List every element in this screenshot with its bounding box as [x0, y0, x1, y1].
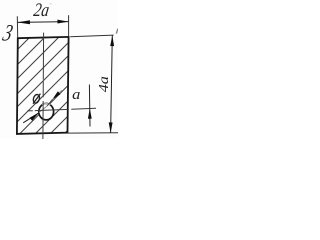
extension line left (2a): [16, 16, 18, 38]
arrow 2a right: [57, 20, 68, 24]
dimension line 4a: [111, 36, 113, 134]
arrow 4a bottom: [109, 122, 113, 133]
arrow 4a top: [110, 36, 114, 47]
extension line bottom (4a): [68, 132, 119, 134]
faint top arc of hole (scan fade): [42, 104, 50, 105]
leader line lower segment: [23, 113, 39, 123]
dimension line a: [88, 85, 91, 127]
arrow a: [88, 108, 92, 118]
vertical center line: [42, 33, 45, 139]
leader arrow upper: [52, 91, 60, 99]
dimension line 2a: [17, 21, 68, 24]
horizontal center line: [27, 108, 96, 111]
extension line right (2a): [68, 15, 70, 36]
scan speck: [50, 3, 52, 4]
leader arrow lower: [30, 113, 39, 121]
leader line faint middle segment: [39, 106, 47, 113]
plate outline: [17, 37, 69, 134]
hole circle: [39, 104, 54, 120]
hatching of plate section: [0, 28, 170, 135]
svg-text:a: a: [72, 87, 80, 103]
arrow 2a left: [17, 20, 30, 24]
diameter symbol: [32, 94, 40, 104]
partial label 4 of next figure: [116, 29, 118, 34]
svg-text:2a: 2a: [32, 0, 50, 21]
svg-text:4a: 4a: [97, 76, 112, 92]
leader line upper segment: [47, 99, 52, 106]
extension line top (4a): [70, 35, 113, 37]
